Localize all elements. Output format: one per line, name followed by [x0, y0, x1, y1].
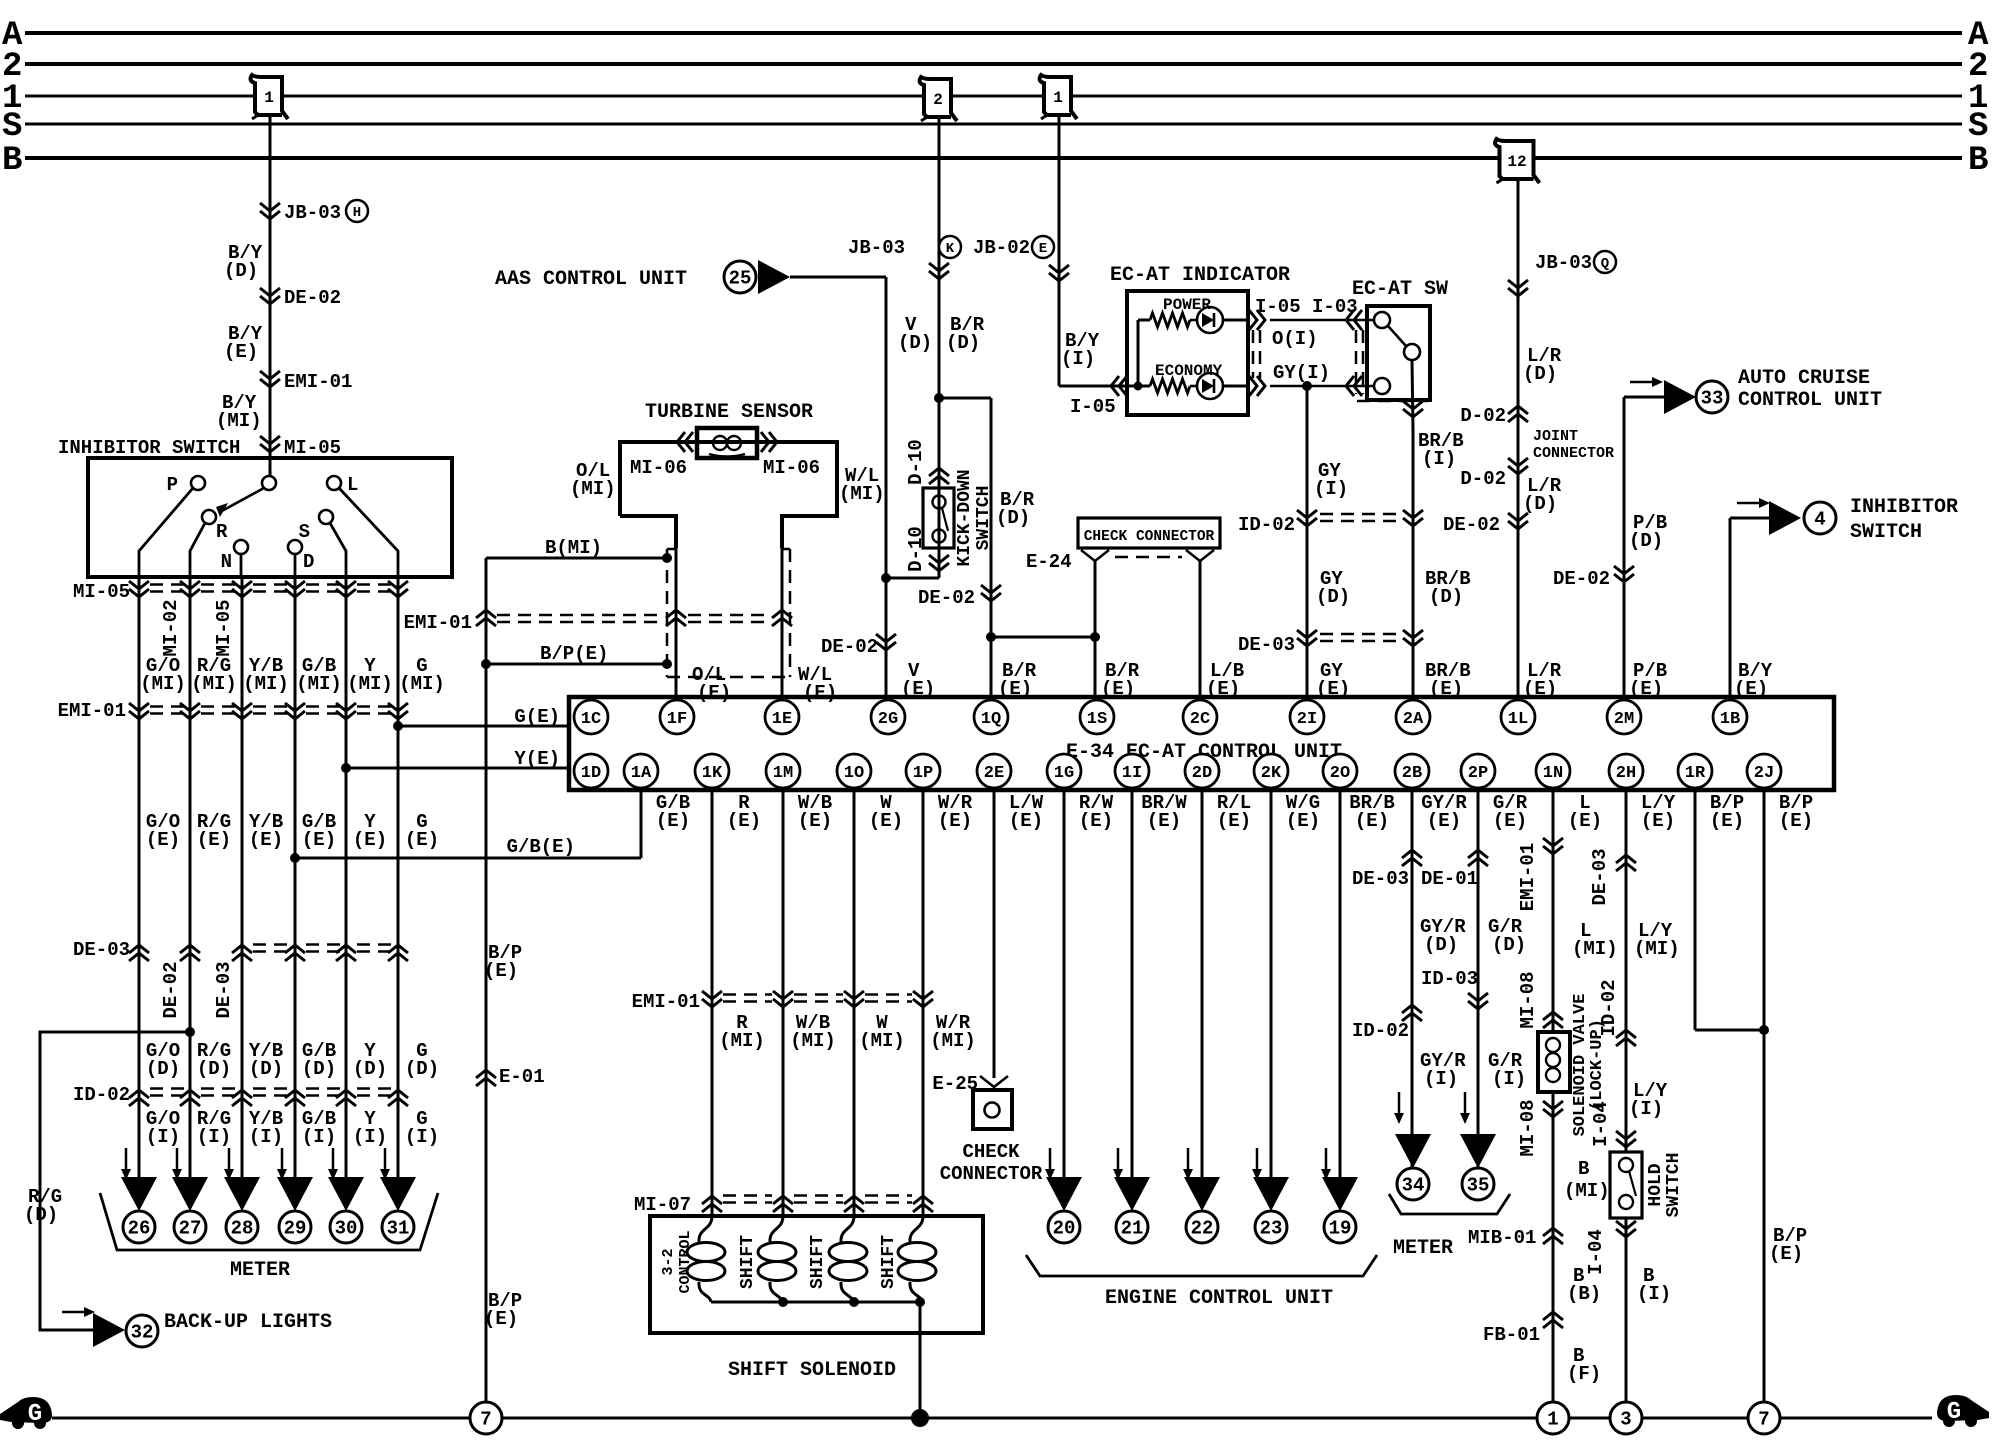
- wire contact L to pin: [339, 488, 398, 577]
- connector DE-02 on P/B: [1553, 566, 1634, 590]
- svg-text:ID-02: ID-02: [1598, 979, 1620, 1036]
- svg-text:I-04: I-04: [1590, 1101, 1612, 1147]
- svg-text:3: 3: [1620, 1409, 1631, 1431]
- svg-text:35: 35: [1467, 1175, 1490, 1197]
- fuse 2 on bus 1: [920, 77, 957, 121]
- connector I-05 chevron into indicator: [1070, 376, 1127, 418]
- svg-text:(D): (D): [302, 1058, 336, 1080]
- svg-text:1: 1: [1053, 89, 1063, 107]
- wire AAS to V wire: [790, 276, 886, 279]
- engine control unit pin 19: [1322, 1177, 1358, 1243]
- svg-text:2K: 2K: [1261, 764, 1282, 783]
- svg-text:(I): (I): [1061, 348, 1095, 370]
- label ENGINE CONTROL UNIT: [1105, 1287, 1333, 1310]
- svg-text:FB-01: FB-01: [1483, 1324, 1540, 1346]
- meter pin 29: [277, 1177, 313, 1243]
- EC-AT indicator box: [1127, 291, 1248, 415]
- ECU pin 1A: [624, 754, 658, 788]
- wire B/Y to inhibitor arrow: [1730, 517, 1780, 520]
- svg-text:EMI-01: EMI-01: [58, 700, 126, 722]
- label L/B (E): [1206, 660, 1244, 700]
- svg-text:(I): (I): [1314, 478, 1348, 500]
- label JOINT CONNECTOR: [1533, 428, 1614, 462]
- connector I-04 lower: [1585, 1221, 1636, 1275]
- svg-text:(E): (E): [1286, 810, 1320, 832]
- fuse 12 on bus B: [1495, 139, 1539, 183]
- svg-text:MI-05: MI-05: [73, 581, 130, 603]
- wire 2B down: [1411, 792, 1414, 1168]
- connector D-10 lower chevron: [929, 555, 949, 571]
- svg-text:(MI): (MI): [1564, 1180, 1610, 1202]
- power bus 1: [2, 80, 1988, 118]
- meter bracket right: [1389, 1194, 1510, 1214]
- svg-text:(D): (D): [1424, 934, 1458, 956]
- svg-text:GY(I): GY(I): [1273, 362, 1330, 384]
- node G/B(E) tap: [290, 792, 641, 863]
- arrow into pin 19: [1321, 1148, 1331, 1180]
- svg-text:CHECK CONNECTOR: CHECK CONNECTOR: [1084, 529, 1215, 545]
- connector EMI-01 on B/Y wire: [260, 371, 352, 393]
- shift solenoid coil 3: [898, 1216, 936, 1302]
- svg-text:AUTO CRUISE: AUTO CRUISE: [1738, 367, 1870, 390]
- wire P/B to auto cruise arrow: [1624, 396, 1675, 399]
- label LOCK-UP rotated: [1588, 1019, 1607, 1111]
- hold switch contact lower: [1619, 1195, 1633, 1209]
- wire solenoid ground: [919, 1302, 922, 1418]
- shift solenoid coil 1: [758, 1216, 796, 1302]
- turbine sensor coil box: [697, 428, 757, 458]
- label B/R (D) lower: [996, 489, 1035, 529]
- label AAS CONTROL UNIT: [495, 268, 687, 291]
- ECU pin 1M: [766, 754, 800, 788]
- label G/B (E) under pin 1A: [656, 792, 690, 832]
- label GY(I): [1273, 362, 1330, 384]
- wire 1O to shift solenoid: [853, 792, 856, 1216]
- svg-text:(E): (E): [353, 829, 387, 851]
- label R (E) under pin 1K: [727, 792, 761, 832]
- arrow into pin 35: [1460, 1092, 1470, 1124]
- svg-text:2O: 2O: [1330, 764, 1350, 783]
- node Y(E) tap: [341, 748, 569, 773]
- arrow into meter pin 30: [328, 1148, 338, 1180]
- svg-text:(E): (E): [1568, 810, 1602, 832]
- svg-text:CONTROL UNIT: CONTROL UNIT: [1738, 389, 1882, 412]
- svg-text:(E): (E): [484, 1308, 518, 1330]
- wire contact R to pin: [190, 523, 205, 577]
- connector MIB-01 on 1N: [1543, 1228, 1563, 1244]
- connector DE-02 on B/R wire: [918, 585, 1001, 609]
- engine control unit pin 22: [1184, 1177, 1220, 1243]
- arrow into meter pin 31: [380, 1148, 390, 1180]
- svg-text:SHIFT: SHIFT: [738, 1235, 758, 1289]
- LED power: [1190, 307, 1248, 333]
- svg-text:(MI): (MI): [790, 1030, 836, 1052]
- svg-text:(MI): (MI): [1634, 938, 1680, 960]
- EC-AT SW contact upper: [1374, 312, 1390, 328]
- svg-text:(D): (D): [1429, 586, 1463, 608]
- 3-2 control solenoid: [687, 1216, 725, 1302]
- svg-text:2M: 2M: [1614, 710, 1634, 729]
- label L/W (E) under pin 2E: [1009, 792, 1044, 832]
- svg-text:(D): (D): [146, 1058, 180, 1080]
- svg-text:1S: 1S: [1087, 710, 1107, 729]
- connector JB-03 (H) on B/Y wire: [260, 200, 368, 224]
- inhibitor contact S: [299, 510, 333, 543]
- inhibitor contact common: [262, 476, 276, 490]
- svg-text:(MI): (MI): [399, 673, 445, 695]
- svg-text:1I: 1I: [1122, 764, 1142, 783]
- connector MI-08 lower: [1517, 1099, 1563, 1156]
- shift solenoid common bus: [711, 1297, 925, 1307]
- svg-text:JB-03: JB-03: [848, 237, 905, 259]
- svg-text:D-10: D-10: [905, 439, 927, 485]
- svg-text:25: 25: [729, 268, 752, 290]
- connector MI-06 left: [630, 432, 693, 479]
- svg-text:B: B: [2, 142, 22, 180]
- label L/Y (MI): [1634, 920, 1680, 960]
- label G/R (E) under pin 2P: [1493, 792, 1528, 832]
- svg-text:G: G: [1947, 1399, 1961, 1426]
- connector MI-07 row: [634, 1194, 933, 1216]
- kick-down switch arm: [942, 508, 948, 531]
- ECU pin 2J: [1747, 754, 1781, 788]
- svg-text:1P: 1P: [913, 764, 933, 783]
- label B/P (E) lower right: [1769, 1225, 1807, 1265]
- svg-text:31: 31: [387, 1218, 410, 1240]
- connector DE-03 on 2H: [1589, 848, 1636, 905]
- svg-text:CONNECTOR: CONNECTOR: [1533, 445, 1614, 462]
- power bus 2: [2, 48, 1988, 86]
- label L (MI): [1572, 920, 1618, 960]
- arrow into pin 34: [1394, 1092, 1404, 1124]
- svg-text:(D): (D): [405, 1058, 439, 1080]
- svg-text:E: E: [1039, 241, 1047, 257]
- svg-text:ENGINE CONTROL UNIT: ENGINE CONTROL UNIT: [1105, 1287, 1333, 1310]
- svg-text:1: 1: [264, 89, 274, 107]
- ECU pin 2D: [1185, 754, 1219, 788]
- engine control unit pin 20: [1046, 1177, 1082, 1243]
- connector 32 back-up lights: [93, 1311, 332, 1347]
- engine control unit bracket: [1026, 1255, 1377, 1276]
- connector DE-02 on V wire: [821, 634, 896, 658]
- meter wire 2 vertical: [189, 577, 192, 1196]
- svg-text:19: 19: [1329, 1218, 1352, 1240]
- svg-text:(E): (E): [1779, 810, 1813, 832]
- svg-text:(E): (E): [197, 829, 231, 851]
- power bus B: [2, 142, 1988, 180]
- svg-text:(E): (E): [697, 682, 731, 704]
- label W (E) under pin 1O: [869, 792, 903, 832]
- svg-text:(F): (F): [1567, 1363, 1601, 1385]
- svg-text:S: S: [1968, 108, 1988, 146]
- connector MI-06 right: [761, 432, 820, 479]
- meter wire 4 vertical: [294, 577, 297, 1196]
- arrow inhibitor switch: [1737, 498, 1770, 508]
- label METER: [230, 1259, 290, 1282]
- node back-up lights tap: [40, 1027, 195, 1330]
- meter bracket: [100, 1193, 438, 1250]
- svg-text:EMI-01: EMI-01: [404, 612, 472, 634]
- engine control unit pin 21: [1114, 1177, 1150, 1243]
- svg-text:1N: 1N: [1543, 764, 1563, 783]
- label SHIFT SOLENOID: [728, 1359, 896, 1382]
- svg-text:DE-02: DE-02: [918, 587, 975, 609]
- label O/L (E): [692, 664, 731, 704]
- meter wire 5 vertical: [345, 577, 348, 1196]
- meter pin 35: [1460, 1134, 1496, 1200]
- svg-text:(MI): (MI): [719, 1030, 765, 1052]
- svg-text:EC-AT INDICATOR: EC-AT INDICATOR: [1110, 264, 1290, 287]
- connector DE-03 row: [73, 939, 408, 961]
- ECU pin 1E: [765, 700, 799, 734]
- connector DE-02 on L/R: [1443, 513, 1528, 536]
- meter pin 28: [224, 1177, 260, 1243]
- label R/G (D): [24, 1186, 62, 1226]
- ECU pin 1F: [660, 700, 694, 734]
- power bus S: [2, 108, 1988, 146]
- svg-text:I-05: I-05: [1070, 396, 1116, 418]
- svg-text:E-01: E-01: [499, 1066, 545, 1088]
- wire 1P to shift solenoid: [922, 792, 925, 1216]
- svg-text:(E): (E): [1355, 810, 1389, 832]
- svg-text:I-05 I-03: I-05 I-03: [1255, 296, 1358, 318]
- svg-text:(E): (E): [798, 810, 832, 832]
- inhibitor switch box: [88, 458, 452, 577]
- wire 1N down: [1552, 792, 1555, 1418]
- svg-text:(MI): (MI): [839, 483, 885, 505]
- wire 2J down: [1763, 792, 1766, 1418]
- svg-text:23: 23: [1260, 1218, 1283, 1240]
- svg-text:E-24: E-24: [1026, 551, 1072, 573]
- kick-down contact upper: [933, 496, 946, 509]
- svg-text:1F: 1F: [667, 710, 687, 729]
- ECU pin 1K: [695, 754, 729, 788]
- svg-text:(I): (I): [302, 1126, 336, 1148]
- svg-text:SWITCH: SWITCH: [1850, 521, 1922, 544]
- wire GY vertical to ECU 2I: [1306, 386, 1309, 697]
- inhibitor contact N: [221, 540, 248, 573]
- label CHECK CONNECTOR E-25: [940, 1141, 1043, 1185]
- label D-10 rotated upper: [905, 439, 927, 485]
- inhibitor contact R: [202, 510, 228, 543]
- arrow into meter pin 26: [121, 1148, 131, 1180]
- engine control unit pin 23: [1253, 1177, 1289, 1243]
- svg-text:(E): (E): [1641, 810, 1675, 832]
- connector MI-05 on B/Y wire: [260, 436, 341, 459]
- turbine sensor outline: [620, 442, 837, 548]
- wire B/P(E) tap: [481, 643, 672, 669]
- label B/Y (D): [224, 242, 263, 282]
- meter wire 3 vertical: [241, 577, 244, 1196]
- wire V vertical: [885, 277, 888, 697]
- label BR/W (E) under pin 1I: [1141, 792, 1187, 832]
- svg-text:B/P(E): B/P(E): [540, 643, 608, 665]
- kick-down contact lower: [933, 530, 946, 543]
- svg-text:ID-02: ID-02: [73, 1084, 130, 1106]
- svg-text:12: 12: [1507, 153, 1526, 171]
- wire 2K to engine control unit: [1270, 792, 1273, 1180]
- arrow auto cruise: [1630, 377, 1663, 387]
- node B/R to check connector: [986, 632, 1100, 642]
- ground pin 7 left: [470, 1402, 502, 1434]
- svg-text:7: 7: [1758, 1409, 1769, 1431]
- svg-text:SWITCH: SWITCH: [1664, 1153, 1684, 1218]
- meter wire 6 vertical: [397, 577, 400, 1196]
- ECU pin 2M: [1607, 700, 1641, 734]
- svg-text:ID-03: ID-03: [1421, 968, 1478, 990]
- meter pin 30: [328, 1177, 364, 1243]
- label B/Y (E) right: [1734, 660, 1773, 700]
- ECU pin 1C: [574, 700, 608, 734]
- node GY tap: [1302, 381, 1312, 391]
- svg-text:(I): (I): [1424, 1068, 1458, 1090]
- svg-text:B: B: [1968, 142, 1988, 180]
- svg-text:32: 32: [131, 1322, 154, 1344]
- label B (MI): [1564, 1158, 1610, 1202]
- big junction node: [911, 1409, 929, 1427]
- connector E-25: [932, 1073, 1008, 1095]
- label E-24: [1026, 551, 1072, 573]
- label GY (E): [1316, 660, 1350, 700]
- svg-text:2G: 2G: [878, 710, 898, 729]
- svg-text:2P: 2P: [1468, 764, 1488, 783]
- connector DE-03 on 2B: [1352, 850, 1422, 890]
- svg-text:2H: 2H: [1616, 764, 1636, 783]
- connector 4 inhibitor switch: [1769, 501, 1836, 535]
- svg-text:29: 29: [284, 1218, 307, 1240]
- ECU pin 2G: [871, 700, 905, 734]
- ECU pin 2C: [1183, 700, 1217, 734]
- connector ID-02 on 2B: [1352, 1005, 1422, 1042]
- connector I-05 I-03 labels: [1255, 296, 1358, 318]
- svg-text:(MI): (MI): [140, 673, 186, 695]
- svg-text:POWER: POWER: [1163, 296, 1211, 314]
- shift solenoid coil 2: [829, 1216, 867, 1302]
- connector FB-01 on 1N: [1483, 1312, 1563, 1346]
- label O(I): [1272, 328, 1318, 350]
- svg-text:B: B: [1578, 1158, 1589, 1180]
- ECU pin 2B: [1395, 754, 1429, 788]
- label B/Y (MI): [216, 392, 262, 432]
- lock-up solenoid valve box: [1538, 1032, 1570, 1092]
- label V (D): [898, 314, 932, 354]
- svg-text:1O: 1O: [844, 764, 864, 783]
- svg-text:SWITCH: SWITCH: [974, 486, 994, 551]
- svg-text:EMI-01: EMI-01: [284, 371, 352, 393]
- svg-text:DE-03: DE-03: [213, 961, 235, 1018]
- svg-text:(D): (D): [1316, 586, 1350, 608]
- label GY/R (I): [1420, 1050, 1466, 1090]
- svg-text:KICK-DOWN: KICK-DOWN: [955, 469, 975, 566]
- labels wire colors (MI): [140, 655, 445, 695]
- ECU pin 2E: [977, 754, 1011, 788]
- wire contact N to pin: [240, 554, 243, 577]
- meter wire 1 vertical: [138, 577, 141, 1196]
- shield dashed box: [667, 549, 790, 677]
- svg-text:INHIBITOR: INHIBITOR: [1850, 496, 1958, 519]
- arrow to back-up lights: [62, 1307, 95, 1317]
- connector MI-08 upper: [1517, 971, 1563, 1028]
- wire P/B vertical: [1623, 397, 1626, 697]
- wire contact P to pin: [139, 488, 193, 577]
- svg-text:34: 34: [1402, 1175, 1425, 1197]
- label B/Y (E): [224, 323, 263, 363]
- svg-text:INHIBITOR SWITCH: INHIBITOR SWITCH: [58, 437, 240, 459]
- svg-text:MI-07: MI-07: [634, 1194, 691, 1216]
- EMI-01 dashed to shield: [497, 610, 792, 626]
- svg-text:(E): (E): [249, 829, 283, 851]
- hold switch arm: [1629, 1171, 1636, 1196]
- svg-text:DE-03: DE-03: [73, 939, 130, 961]
- svg-text:MI-08: MI-08: [1517, 1099, 1539, 1156]
- wire L/R from fuse 12: [1517, 178, 1520, 697]
- svg-text:2J: 2J: [1754, 764, 1774, 783]
- arrow into pin 22: [1183, 1148, 1193, 1180]
- ground pin 3: [1610, 1402, 1642, 1434]
- fuse 1 (second) on bus 1: [1040, 75, 1077, 119]
- shift solenoid box: [650, 1216, 983, 1333]
- EC-AT SW box: [1367, 306, 1430, 400]
- label G/R (I): [1488, 1050, 1526, 1090]
- svg-text:(I): (I): [1629, 1098, 1663, 1120]
- svg-text:DE-02: DE-02: [160, 961, 182, 1018]
- svg-text:(E): (E): [656, 810, 690, 832]
- label O/L (MI): [570, 460, 616, 500]
- ECU pin 2I: [1290, 700, 1324, 734]
- svg-text:(E): (E): [1079, 810, 1113, 832]
- label SHIFT rotated 2: [808, 1235, 828, 1289]
- connector EMI-01 on B/P wire: [404, 610, 496, 634]
- label B (I): [1637, 1265, 1671, 1305]
- EC-AT SW arm: [1388, 326, 1406, 346]
- connector I-04 upper: [1590, 1101, 1636, 1147]
- label L (E) under pin 1N: [1568, 792, 1602, 832]
- label MI-02 rotated: [160, 599, 182, 656]
- hold switch box: [1610, 1152, 1642, 1218]
- svg-text:2D: 2D: [1192, 764, 1212, 783]
- LED economy: [1190, 373, 1248, 399]
- wire O/L to ECU 1F: [675, 548, 678, 697]
- svg-text:22: 22: [1191, 1218, 1214, 1240]
- label SOLENOID VALVE rotated: [1571, 994, 1590, 1137]
- wire 1M to shift solenoid: [782, 792, 785, 1216]
- ECU pin 1R: [1678, 754, 1712, 788]
- ECU pin 1P: [906, 754, 940, 788]
- label BR/B (E) under pin 2O: [1349, 792, 1395, 832]
- svg-text:SHIFT: SHIFT: [808, 1235, 828, 1289]
- svg-text:(E): (E): [484, 960, 518, 982]
- label B/R (D) upper: [946, 314, 985, 354]
- svg-text:D: D: [303, 551, 314, 573]
- label B/P (E) mid: [484, 942, 522, 982]
- svg-text:(E): (E): [1710, 810, 1744, 832]
- connector EMI-01 under ECU: [632, 991, 933, 1013]
- arrow into meter pin 29: [277, 1148, 287, 1180]
- label W/B (E) under pin 1M: [798, 792, 832, 832]
- svg-text:ID-02: ID-02: [1238, 514, 1295, 536]
- svg-text:2: 2: [933, 91, 943, 109]
- ECU pin 2A: [1396, 700, 1430, 734]
- arrow into pin 23: [1252, 1148, 1262, 1180]
- svg-text:2C: 2C: [1190, 710, 1210, 729]
- label GY/R (E) under pin 2B: [1421, 792, 1467, 832]
- wire 2O to engine control unit: [1339, 792, 1342, 1180]
- svg-text:(I): (I): [405, 1126, 439, 1148]
- meter pin 27: [172, 1177, 208, 1243]
- connector D-10 upper chevron: [929, 468, 949, 484]
- connector JB-02 (E): [973, 236, 1069, 281]
- svg-text:(D): (D): [249, 1058, 283, 1080]
